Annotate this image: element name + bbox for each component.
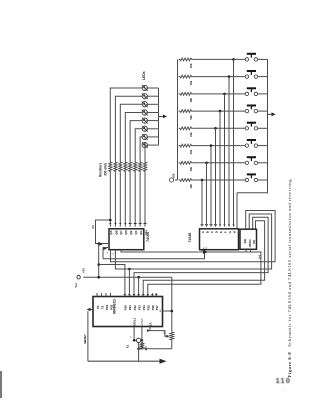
svg-text:10k: 10k	[189, 166, 193, 171]
resistor R15 10k pull-up	[179, 161, 193, 164]
wire row 8 switch to ground bus	[258, 179, 268, 181]
svg-text:74164: 74164	[146, 232, 150, 242]
LED D7	[141, 133, 149, 141]
wire bus L7 MCU to 7404 loop	[143, 221, 264, 297]
wire 74164 control to 74165 line	[121, 250, 198, 252]
wire MCU EA pin to crystal	[147, 327, 169, 337]
wire LED D7 cathode lead to ground bus	[148, 136, 159, 138]
wire row 6 drop to 74165	[210, 146, 212, 227]
node row 3 junction	[223, 93, 226, 96]
svg-text:U4: U4	[257, 255, 261, 259]
switch S4	[245, 106, 257, 113]
wire 74165 select pin from switch bus	[236, 193, 238, 229]
ground for switch bus	[268, 112, 276, 116]
svg-text:H: H	[232, 231, 236, 233]
ground main rail arrow	[160, 359, 167, 364]
wire XTAL1 pin drop	[134, 327, 136, 341]
resistor R16 10k pull-up	[179, 179, 193, 182]
wire row 3 switch to ground bus	[258, 93, 268, 95]
svg-text:Figure 6-8Schematic for 74LS16: Figure 6-8Schematic for 74LS164 and 74LS…	[287, 177, 292, 377]
label LEDs	[142, 71, 146, 80]
svg-text:T0: T0	[96, 305, 100, 309]
label pin40	[160, 309, 162, 312]
wire 74164 clock pin to shared clock line	[103, 248, 109, 259]
svg-text:U3: U3	[91, 225, 95, 229]
switch S8	[245, 174, 257, 181]
svg-text:P13: P13	[137, 305, 141, 311]
node crystal junction	[166, 335, 168, 337]
svg-text:10k: 10k	[189, 80, 193, 85]
wire row 5 resistor to switch	[193, 127, 245, 129]
switch S7	[245, 157, 257, 164]
LED D4	[141, 108, 149, 116]
label 10k R11	[189, 98, 193, 103]
label X1	[126, 344, 130, 348]
wire +5V distribution	[83, 244, 172, 278]
svg-text:P12: P12	[133, 305, 137, 311]
svg-text:74165: 74165	[188, 233, 192, 243]
svg-text:+5V: +5V	[171, 173, 175, 178]
wire reset line down left	[87, 311, 89, 361]
svg-text:+5V: +5V	[82, 268, 86, 273]
wire LED D6 cathode lead to ground bus	[148, 128, 159, 130]
svg-text:9: 9	[113, 252, 115, 254]
wire LED D4 cathode lead to ground bus	[148, 112, 159, 114]
node row 7 junction	[205, 162, 208, 165]
wire row 4 resistor to switch	[193, 110, 245, 112]
svg-text:P24: P24	[105, 304, 109, 310]
svg-text:E: E	[219, 231, 223, 233]
label Resistors 330 ohm	[98, 162, 107, 177]
svg-text:T1: T1	[100, 305, 104, 309]
label RESET	[83, 334, 87, 344]
svg-text:G: G	[228, 230, 232, 233]
wire switch ground bus	[237, 59, 268, 192]
resistor R6 330 ohm	[134, 161, 137, 173]
wire LED D8 cathode lead to ground bus	[148, 144, 159, 146]
label 74165	[188, 233, 192, 243]
resistor R9 10k pull-up	[179, 58, 193, 61]
wire row 2 resistor to switch	[193, 76, 245, 78]
wire +5V pull-up rail	[177, 59, 179, 180]
label 10k R9	[189, 63, 193, 68]
LED D8	[141, 141, 149, 149]
wire ground rail bottom	[88, 360, 161, 362]
wire row 4 switch to ground bus	[258, 110, 268, 112]
wire bus L8 MCU to 74165 load	[148, 252, 261, 297]
wire row 5 drop to 74165	[215, 128, 217, 226]
MCU left serial-out pin arrow	[87, 308, 93, 312]
label 10k R16	[189, 184, 193, 189]
svg-text:Din: Din	[243, 238, 247, 243]
pin numbers 74164 outputs	[109, 223, 146, 224]
shift register 74165	[200, 229, 239, 250]
node row 5 junction	[214, 127, 217, 130]
svg-text:180: 180	[144, 346, 148, 351]
svg-text:SH: SH	[206, 247, 208, 250]
label 10k R10	[189, 80, 193, 85]
microcontroller U1 8049	[93, 297, 163, 327]
wire row 6 switch to ground bus	[258, 145, 268, 147]
svg-text:P10: P10	[124, 305, 128, 311]
wire row 1 switch to ground bus	[258, 58, 268, 60]
svg-text:P17: P17	[155, 305, 159, 311]
wire LED D2 cathode lead to ground bus	[148, 95, 159, 97]
svg-text:QD: QD	[124, 230, 128, 234]
wire XTAL2 pin drop	[140, 327, 143, 342]
svg-text:10k: 10k	[189, 132, 193, 137]
wire MCU pin2 riser	[128, 269, 130, 297]
node +5V rail junctions	[97, 263, 140, 278]
wire LED D1 cathode lead to ground bus	[148, 87, 159, 89]
LED D6	[141, 125, 149, 133]
label U3	[91, 225, 95, 229]
svg-text:40: 40	[160, 309, 162, 312]
label 10k R15	[189, 166, 193, 171]
resistor R3 330 ohm	[119, 161, 122, 173]
wire row 3 resistor to switch	[193, 93, 245, 95]
svg-text:D: D	[214, 231, 218, 233]
wire bus L2 74164 data to 7404 loop	[111, 211, 276, 262]
crystal X2	[170, 331, 174, 349]
terminal +5V switches	[169, 178, 177, 182]
svg-text:10k: 10k	[189, 63, 193, 68]
label +5V	[82, 268, 86, 273]
scan edge artifact	[0, 371, 2, 398]
wire row 8 resistor to switch	[193, 179, 245, 181]
wire row 4 drop to 74165	[219, 111, 221, 227]
pin numbers XTAL	[131, 330, 144, 338]
resistor R7 330 ohm	[139, 161, 142, 173]
node row 1 junction	[232, 58, 235, 61]
wire MCU vcc drop	[138, 277, 140, 296]
wire row 5 switch to ground bus	[258, 127, 268, 129]
label R17 value	[144, 346, 148, 351]
wire bus L4 clock loop	[115, 214, 271, 269]
svg-text:8: 8	[107, 251, 109, 253]
MCU extra stub pins	[152, 293, 156, 297]
resistor R12 10k pull-up	[179, 110, 193, 113]
resistor R4 330 ohm	[124, 161, 127, 173]
resistor R10 10k pull-up	[179, 75, 193, 78]
svg-text:QG: QG	[139, 230, 143, 235]
svg-text:P14: P14	[142, 305, 146, 311]
resistor R1 330 ohm	[109, 161, 112, 173]
wire LED common ground bus	[158, 88, 160, 145]
svg-text:QB: QB	[114, 230, 118, 234]
label X2 value	[163, 330, 166, 334]
wire VDD riser to MCU right pin	[163, 277, 174, 331]
wire bus L3 Vcc to MCU pin	[99, 265, 125, 297]
svg-text:P25: P25	[109, 304, 113, 310]
wire shared clock line L1	[103, 250, 205, 259]
wire LED D3 cathode lead to ground bus	[148, 103, 159, 105]
wire row 1 resistor to switch	[193, 58, 245, 60]
resistor R5 330 ohm	[129, 161, 132, 173]
resistor R11 10k pull-up	[179, 93, 193, 96]
svg-text:P15: P15	[147, 305, 151, 311]
svg-text:RESET: RESET	[83, 334, 87, 344]
MCU bottom pin labels	[133, 317, 153, 326]
svg-text:Vcc: Vcc	[74, 282, 78, 287]
wire row 7 resistor to switch	[193, 162, 245, 164]
wire row 8 drop to 74165	[201, 180, 203, 227]
svg-text:QF: QF	[134, 230, 138, 234]
resistor R17 oscillator	[140, 342, 143, 350]
svg-text:10k: 10k	[189, 184, 193, 189]
wire LED fan-out bus from 74164 outputs	[110, 88, 145, 162]
7404 bottom stub pins	[246, 249, 251, 252]
label Vcc	[74, 282, 78, 287]
pin numbers 74165 inputs	[201, 224, 235, 225]
switch S6	[245, 140, 257, 147]
terminal Vcc +5V circle	[77, 276, 80, 279]
svg-text:A: A	[201, 230, 205, 233]
node row 8 junction	[201, 179, 204, 182]
svg-text:SO: SO	[252, 239, 256, 244]
wire LED D5 cathode lead to ground bus	[148, 120, 159, 122]
wire bus L5 MCU to 7404	[134, 217, 268, 296]
svg-text:LEDs: LEDs	[142, 71, 146, 80]
LED D2	[141, 92, 149, 100]
wire 74165 to 7404 link	[239, 231, 241, 233]
node bus L4 junctions	[128, 268, 131, 271]
svg-text:X1: X1	[126, 344, 130, 348]
wire row 2 switch to ground bus	[258, 76, 268, 78]
node row 2 junction	[228, 75, 231, 78]
svg-text:10k: 10k	[189, 98, 193, 103]
svg-text:Resistors: Resistors	[98, 162, 102, 177]
resistor R8 330 ohm	[143, 161, 146, 173]
svg-text:F: F	[223, 231, 227, 233]
switch S2	[245, 71, 257, 78]
wire row 7 drop to 74165	[206, 163, 208, 227]
MCU top stub pins left group	[97, 293, 111, 297]
wire row 6 resistor to switch	[193, 145, 245, 147]
label 10k R12	[189, 115, 193, 120]
wire row 7 switch to ground bus	[258, 162, 268, 164]
label 74164	[146, 232, 150, 242]
wire QA feedback to serial input A	[96, 219, 112, 245]
resistor R13 10k pull-up	[179, 127, 193, 130]
shift register U3 74164	[109, 229, 148, 250]
wire row 1 drop to 74165	[233, 59, 235, 226]
svg-text:XTAL1: XTAL1	[133, 317, 137, 326]
label 8049 inside	[113, 299, 117, 314]
LED D1	[141, 84, 149, 92]
svg-text:QA: QA	[109, 230, 113, 235]
switch S5	[245, 123, 257, 130]
node row 6 junction	[210, 144, 213, 147]
svg-text:B: B	[205, 231, 209, 233]
pin numbers 74164 bottom 8 9	[107, 251, 115, 254]
wire row 3 drop to 74165	[224, 94, 226, 227]
svg-text:10k: 10k	[189, 149, 193, 154]
node oscillator junctions	[133, 339, 143, 350]
svg-text:QC: QC	[119, 230, 123, 235]
switch S3	[245, 88, 257, 95]
svg-text:P11: P11	[128, 305, 132, 310]
MCU pin labels top	[96, 304, 159, 310]
svg-text:10k: 10k	[189, 115, 193, 120]
wire 74164 outputs up to resistors	[110, 173, 145, 227]
wire oscillator to ground	[139, 343, 142, 361]
ground for 74165 control pin	[198, 250, 208, 254]
resistor R2 330 ohm	[114, 161, 117, 173]
LED D3	[141, 100, 149, 108]
svg-text:C: C	[210, 230, 214, 233]
label 10k R14	[189, 149, 193, 154]
node row 4 junction	[219, 110, 222, 113]
switch S1	[245, 54, 257, 61]
svg-text:XTAL2: XTAL2	[141, 318, 144, 326]
inverter U4 7404	[240, 229, 257, 249]
resistor R14 10k pull-up	[179, 144, 193, 147]
clock input arrow 74164	[99, 242, 107, 250]
ground for LED bus	[159, 114, 168, 118]
wire osc ground link right	[139, 348, 172, 350]
svg-text:330 ohm: 330 ohm	[103, 163, 107, 176]
MCU pin numbers above edge	[124, 293, 158, 296]
svg-text:B: B	[131, 336, 133, 338]
oscillator X1 circle	[136, 338, 140, 342]
page number 110	[276, 376, 292, 385]
wire row 2 drop to 74165	[228, 77, 230, 227]
label U4	[257, 255, 261, 259]
caption Figure 6-8	[287, 177, 292, 377]
svg-text:QE: QE	[129, 230, 133, 234]
svg-text:EA: EA	[149, 322, 153, 326]
node clock junction at 74165	[203, 251, 206, 254]
label 10k R13	[189, 132, 193, 137]
LED D5	[141, 117, 149, 125]
label +5V switches	[171, 173, 175, 178]
